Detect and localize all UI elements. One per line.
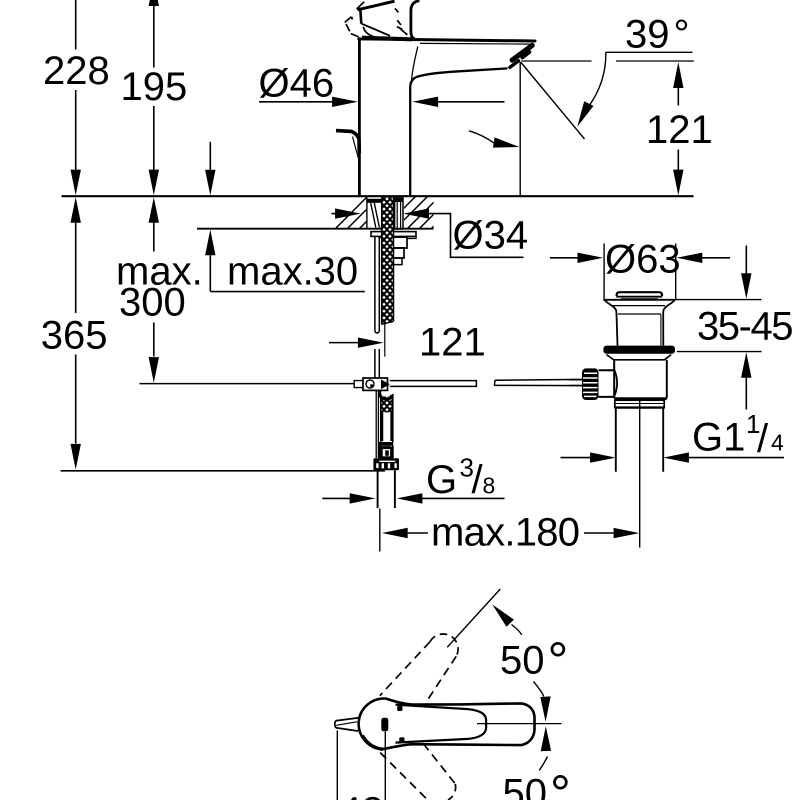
spout root inner curve [411, 47, 418, 83]
horizontal rod segment 1 [390, 381, 477, 387]
hose end connector ferrule [379, 442, 393, 445]
top view centerline [477, 723, 562, 725]
pop-up rod beside hose [376, 391, 378, 459]
DRAIN [570, 292, 676, 547]
supply hose braided lower [381, 397, 393, 413]
waste flange [604, 299, 675, 301]
dim G3/8 [322, 497, 351, 499]
knob hub [599, 370, 615, 397]
TOP VIEW [335, 589, 571, 800]
dim max300 arrows [149, 197, 159, 223]
dim 195 line [149, 0, 159, 6]
body left edge [358, 40, 361, 196]
faucet handle solid blade [358, 1, 395, 10]
svg-text:121: 121 [646, 108, 713, 152]
dim diam34 leader [332, 213, 338, 215]
counter hatching [330, 194, 466, 234]
tail pipe [378, 470, 395, 508]
rod into knob [570, 380, 583, 386]
top view spout tab [335, 718, 358, 731]
svg-text:50°: 50° [503, 766, 571, 800]
SIDE VIEW [336, 1, 535, 196]
rod guide tube right [395, 198, 403, 229]
dim 39deg arc [589, 53, 606, 107]
dim 50 lower arrow [541, 726, 551, 751]
supply hose braided upper [382, 197, 394, 323]
svg-text:max.180: max.180 [431, 511, 580, 555]
svg-text:max.30: max.30 [227, 250, 358, 294]
dim diam46 [259, 101, 334, 103]
dim max180 [382, 528, 408, 538]
svg-text:G1: G1 [692, 416, 745, 460]
top view cartridge marker [381, 718, 388, 732]
hose end reference line [61, 470, 385, 472]
dim 50 upper arc arrow [492, 605, 514, 627]
connector nut G3/8 [373, 458, 399, 470]
waste body [614, 360, 667, 398]
pop-up rod tube [375, 237, 379, 332]
top view dots [397, 706, 402, 711]
svg-text:48: 48 [339, 790, 384, 800]
svg-text:8: 8 [483, 473, 496, 499]
svg-text:121: 121 [419, 321, 486, 365]
spout top edge [359, 39, 535, 41]
counter bottom line [197, 228, 434, 230]
dim 48 extension lines [337, 731, 385, 800]
horizontal rod segment 2 [494, 379, 583, 385]
waste seal ring [603, 346, 675, 354]
dim max30 lower arrow [205, 230, 215, 256]
body boss arc [614, 370, 617, 397]
top view thick lower-left arc [363, 736, 384, 750]
hose break cut [382, 321, 394, 324]
faucet handle stem [411, 1, 420, 39]
faucet handle dashed rotated position [345, 2, 408, 37]
angle arc small [469, 131, 494, 143]
svg-text:/: / [757, 417, 769, 461]
washer plate [371, 232, 416, 237]
mounting nut step 1 [378, 237, 407, 248]
dim 121 right line [673, 62, 683, 88]
waste knob [582, 368, 599, 400]
hose hook below valve [380, 390, 392, 399]
dim 365 arrows at counter [71, 197, 81, 223]
mounting nut step 2 [394, 248, 404, 258]
35-45 extension lines [676, 300, 762, 352]
svg-text:G: G [426, 458, 457, 502]
dim 50 arc to centerline upper arrow [534, 682, 544, 697]
pop-up rod knob behind body [336, 131, 359, 153]
top view outline body and lever [359, 699, 535, 750]
svg-text:4: 4 [771, 430, 784, 456]
supply pipe line left [140, 383, 355, 385]
pop-up waste plug cap [617, 292, 662, 296]
svg-text:Ø63: Ø63 [605, 238, 681, 282]
top view inner lever blade [396, 705, 487, 743]
anchor wedge [370, 200, 379, 228]
valve tee left stub [354, 381, 363, 388]
svg-text:Ø34: Ø34 [453, 214, 529, 258]
hose lower tube walls [382, 412, 392, 441]
dim 121 mid [329, 342, 359, 344]
mounting nut step 3 [394, 258, 402, 265]
dim diam63 [550, 257, 579, 259]
spout tip aerator [512, 45, 532, 60]
valve tee body [363, 378, 388, 390]
spout stream diagonal [521, 62, 585, 139]
hose inner line across break [384, 321, 386, 356]
counter top line [62, 195, 694, 197]
dim 121 extension from tip [522, 60, 694, 62]
faucet axis extension [379, 509, 381, 552]
DIMENSIONS [41, 0, 794, 555]
dim 228 line [75, 0, 77, 171]
UNDER COUNTER [62, 194, 694, 508]
svg-text:Ø46: Ø46 [259, 62, 335, 106]
svg-text:365: 365 [41, 314, 108, 358]
dim G1 1/4 [561, 457, 591, 459]
waste tailpipe [616, 408, 663, 471]
waste collar [607, 355, 672, 360]
svg-text:228: 228 [43, 49, 110, 93]
tailpipe center line [639, 400, 641, 547]
svg-text:35-45: 35-45 [697, 305, 794, 349]
dashed lever rotated down [423, 744, 455, 784]
body right edge and spout underside [410, 68, 507, 195]
dim max30 upper arrow [209, 142, 211, 170]
svg-text:39°: 39° [625, 13, 690, 57]
deck hole left edge [366, 197, 368, 228]
dim 35-45 [745, 246, 747, 274]
deck dark bar under handle [362, 38, 412, 40]
waste tail flange band [615, 400, 664, 407]
pop-up rod tube lower part [375, 349, 379, 378]
spout vertical reference [519, 62, 521, 195]
svg-text:300: 300 [119, 281, 186, 325]
dim 39deg shelf [606, 51, 693, 53]
diam63 extension lines [604, 244, 676, 302]
dashed lever rotated up [380, 642, 430, 696]
dim 50 upper leg [447, 589, 500, 647]
svg-text:195: 195 [121, 65, 188, 109]
